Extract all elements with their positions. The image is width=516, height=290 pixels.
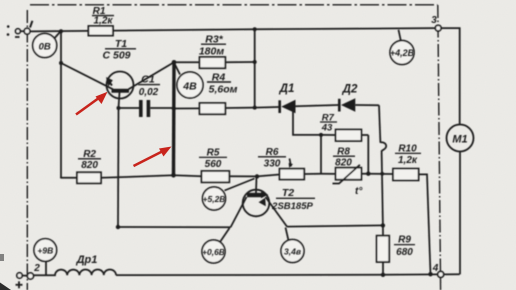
node: R7 left junction	[319, 133, 323, 137]
terminal 1	[24, 28, 30, 34]
node: R8 right junction	[366, 172, 370, 176]
node: crossing dot on R10 rail	[380, 172, 384, 176]
label T2	[271, 187, 315, 212]
svg-text:330: 330	[264, 159, 281, 170]
svg-text:+9В: +9В	[37, 246, 53, 256]
svg-text:C1: C1	[141, 74, 155, 86]
scan smudges	[0, 283, 11, 290]
capacitor C1	[119, 107, 140, 109]
node: T1 base / C1 junction	[117, 106, 121, 110]
terminal 2 plug	[17, 273, 22, 278]
wire: top rail from terminal 1 to terminal 3	[30, 28, 436, 31]
wire: emitter rail to T2	[118, 226, 231, 228]
wire: D2 anode down with hook	[379, 105, 380, 143]
transistor T2 collector wire	[266, 197, 288, 227]
frame: plug-side dots top-left	[7, 25, 10, 36]
frame: left boundary dash-dot	[26, 10, 28, 290]
node: top of thick wire	[172, 60, 177, 65]
wire: left vertical node	[60, 31, 62, 178]
terminal 4	[438, 271, 444, 277]
resistor R5	[174, 174, 202, 177]
resistor R8 (thermistor)	[321, 173, 336, 175]
svg-text:5,6ом: 5,6ом	[209, 84, 238, 96]
transistor T1 emitter wire	[61, 63, 113, 89]
label C1	[138, 74, 160, 99]
resistor R2	[77, 172, 101, 183]
wire: D1 anode branch down to R7/R8 left	[293, 108, 321, 135]
label R3	[199, 34, 226, 58]
red annotation arrow at T1	[76, 92, 108, 115]
circle +0.6V annotation	[220, 228, 230, 242]
circle +4.2V annotation	[399, 30, 402, 42]
svg-text:0В: 0В	[39, 42, 51, 53]
svg-text:43: 43	[321, 123, 333, 134]
node: R4/D1 junction	[253, 106, 257, 110]
arrow tick under R6 label	[290, 159, 292, 167]
wire: highlighted thick vertical (added wire)	[172, 62, 176, 175]
svg-text:3: 3	[431, 15, 437, 26]
red annotation arrow at thick wire	[134, 147, 172, 167]
label R7	[320, 113, 337, 134]
svg-text:М1: М1	[452, 134, 467, 146]
svg-text:+4,2В: +4,2В	[390, 48, 415, 58]
svg-text:820: 820	[335, 158, 352, 169]
transistor T2 circle	[243, 190, 270, 217]
thermistor diagonal of R8	[333, 165, 360, 184]
svg-text:680: 680	[396, 247, 413, 258]
svg-text:1,2к: 1,2к	[398, 155, 418, 166]
svg-text:C 509: C 509	[102, 50, 130, 62]
wire: to motor	[441, 28, 460, 124]
rail: collector to R9	[287, 225, 383, 226]
resistor R1	[88, 26, 113, 36]
label R6	[258, 147, 286, 170]
label R8	[333, 147, 355, 169]
svg-text:Д2: Д2	[342, 84, 358, 96]
wire: motor return	[459, 152, 461, 275]
label 1	[30, 21, 32, 28]
label R4	[207, 72, 238, 96]
minus mark at terminal 1	[15, 36, 20, 38]
svg-text:4: 4	[432, 263, 439, 274]
terminal 1 plug	[16, 29, 21, 34]
resistor R7	[321, 134, 336, 136]
node: T2 base junction	[255, 174, 259, 178]
svg-text:3,4в: 3,4в	[284, 247, 301, 257]
resistor R9	[382, 225, 384, 235]
resistor R4	[174, 107, 200, 109]
svg-text:820: 820	[81, 160, 98, 171]
wire: R7 right vertical	[367, 135, 369, 174]
inductor Dr1 coil	[33, 270, 116, 276]
node: R3 right junction	[253, 60, 257, 64]
svg-text:R9: R9	[398, 235, 411, 246]
label R5	[199, 148, 227, 171]
label R2	[78, 149, 101, 171]
motor M1 circle	[447, 125, 474, 152]
svg-text:560: 560	[205, 159, 222, 170]
wire: R7/R8 left vertical	[320, 135, 322, 174]
rail: bottom	[116, 273, 438, 276]
svg-text:1,2к: 1,2к	[94, 16, 114, 27]
node: R10 bottom junction	[428, 272, 432, 276]
diode D2	[338, 99, 341, 112]
node: corner to T1 emitter	[59, 61, 63, 65]
svg-text:0,02: 0,02	[139, 87, 159, 98]
transistor T1 circle	[107, 72, 134, 99]
frame: top boundary dash-dot	[30, 4, 438, 6]
node: corner emitter rail	[116, 225, 120, 229]
node: junction top at R3 column	[253, 27, 257, 31]
svg-text:+5,2В: +5,2В	[203, 194, 226, 204]
terminal 2	[27, 273, 33, 279]
transistor T1 collector wire	[129, 62, 175, 89]
transistor T1 base lead	[119, 93, 120, 109]
label T1	[102, 38, 136, 62]
svg-text:180м: 180м	[199, 46, 225, 58]
transistor T2 emitter arrow	[259, 198, 266, 206]
terminal 3	[435, 25, 441, 31]
resistor R6	[257, 175, 280, 177]
circle +9V annotation	[45, 261, 47, 275]
rail: R2/R5/R6 base rail	[61, 177, 77, 180]
circle +5.2V annotation	[225, 179, 255, 191]
svg-text:Др1: Др1	[76, 254, 98, 266]
resistor R3	[174, 61, 200, 63]
diode D1	[255, 106, 279, 109]
resistor R10	[368, 173, 393, 175]
node: R9 bottom junction	[381, 273, 385, 277]
svg-text:Д1: Д1	[279, 83, 295, 95]
label R10	[395, 144, 421, 167]
svg-text:2: 2	[33, 263, 40, 274]
svg-text:t°: t°	[355, 186, 363, 197]
transistor T2 emitter wire	[231, 197, 247, 227]
svg-text:+0,6В: +0,6В	[202, 247, 225, 257]
circle 4V annotation	[175, 64, 180, 75]
transistor T2 base lead	[255, 176, 258, 193]
node: R9 top junction	[381, 223, 385, 227]
frame: right boundary dash-dot	[438, 5, 441, 290]
node: bottom of thick wire	[171, 173, 176, 178]
node: junction top-left	[59, 29, 63, 33]
circle 0V annotation	[52, 32, 60, 41]
wire: vertical x=255	[254, 29, 256, 107]
label R9	[394, 235, 415, 259]
svg-text:T2: T2	[282, 187, 294, 199]
svg-text:2SB185P: 2SB185P	[271, 201, 313, 212]
transistor T2 base bar	[247, 193, 263, 197]
label R1 value	[92, 6, 114, 27]
wire: T1 base down to emitter rail	[117, 108, 120, 227]
circle 3.4V annotation	[286, 228, 289, 241]
svg-text:4В: 4В	[182, 81, 197, 93]
plus mark at terminal 2	[16, 281, 23, 288]
transistor T1 base bar	[112, 89, 130, 93]
transistor T1 emitter arrow	[106, 77, 113, 87]
